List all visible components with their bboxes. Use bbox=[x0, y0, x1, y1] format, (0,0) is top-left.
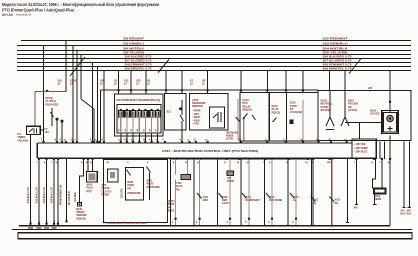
connector square 5 in A503 bbox=[143, 110, 148, 117]
svg-text:X45: X45 bbox=[401, 210, 406, 213]
svg-text:GAUGE: GAUGE bbox=[370, 113, 380, 116]
K01A gray wire bbox=[243, 119, 245, 140]
attached connector box right of unit bbox=[352, 139, 376, 158]
switch symbol S01B bbox=[326, 117, 334, 130]
pin mark top 14 bbox=[132, 141, 134, 143]
svg-text:103 BLK 1.0 P: 103 BLK 1.0 P bbox=[43, 187, 46, 203]
pin mark bottom 5 bbox=[83, 158, 85, 160]
solenoid box 5 outline bbox=[265, 159, 289, 226]
junction nub enclosure 2 bbox=[130, 89, 132, 91]
wire drop 1 bbox=[43, 46, 45, 144]
svg-text:303 GRN/BLU: 303 GRN/BLU bbox=[123, 43, 144, 46]
connector square 6 inner marks bbox=[151, 111, 153, 116]
svg-text:(PQ)C21: (PQ)C21 bbox=[243, 109, 253, 112]
end tick resistor wire bbox=[373, 204, 376, 206]
B030 label bbox=[128, 181, 142, 195]
pin mark bottom 25 bbox=[373, 158, 375, 160]
pin wire square 2 to unit bbox=[126, 133, 128, 143]
pin mark top 19 bbox=[164, 141, 166, 143]
pin mark top 30 bbox=[346, 141, 348, 143]
pin mark bottom 13 bbox=[199, 158, 201, 160]
ground junction dash at 54 bbox=[51, 227, 56, 229]
end tick x404 bbox=[402, 207, 405, 209]
K01A contact pin bbox=[243, 118, 245, 120]
contact arrow box2 bbox=[197, 193, 202, 199]
solenoid box 4 outline bbox=[241, 159, 265, 226]
svg-text:PQ(C2): PQ(C2) bbox=[272, 111, 281, 114]
pin mark top 7 bbox=[93, 141, 95, 143]
switch B071 arrow bbox=[147, 167, 151, 173]
wire drop 7 bbox=[96, 67, 98, 144]
S210 gray wire bbox=[302, 100, 304, 141]
junction nub enclosure 8 bbox=[266, 89, 268, 91]
wire bus line 4 bbox=[17, 54, 411, 56]
svg-text:309 BRN/YEL 0.75: 309 BRN/YEL 0.75 bbox=[323, 68, 353, 71]
box K01A outline bbox=[240, 93, 269, 142]
wire box6 bbox=[295, 159, 297, 225]
svg-text:LEVEL: LEVEL bbox=[226, 138, 234, 141]
pin mark top 24 bbox=[240, 141, 242, 143]
svg-text:W1 RED: W1 RED bbox=[74, 192, 77, 202]
ground pin nub 3 bbox=[45, 223, 47, 225]
svg-text:A503 POWERSHIFT TRANSMISSION (: A503 POWERSHIFT TRANSMISSION (PQ) bbox=[116, 98, 160, 102]
svg-text:S13: S13 bbox=[167, 111, 172, 114]
connector square 2 in A503 bbox=[125, 110, 130, 117]
B021 label bbox=[370, 110, 380, 116]
wire drop 2 bbox=[65, 41, 67, 93]
svg-text:(LTC21): (LTC21) bbox=[348, 109, 357, 112]
wire box1 down bbox=[175, 180, 177, 226]
svg-text:(PQ): (PQ) bbox=[87, 190, 92, 193]
nub x66.5 bbox=[65, 220, 67, 222]
X connector box bbox=[87, 172, 98, 183]
gray wire under square 7 bbox=[157, 117, 159, 133]
svg-text:(PQ/AQ): (PQ/AQ) bbox=[76, 217, 86, 220]
label x404 bbox=[401, 210, 406, 216]
wire bus line 1 bbox=[21, 40, 411, 42]
svg-text:304 WHT/BLK: 304 WHT/BLK bbox=[323, 48, 348, 51]
ground pin nub 4 bbox=[53, 223, 55, 225]
svg-text:307 BLU/RED 0.75: 307 BLU/RED 0.75 bbox=[125, 60, 153, 63]
wire continuation after jog bbox=[93, 109, 95, 143]
solenoid box 1 outline bbox=[171, 159, 195, 226]
switch arrow in S13 bbox=[180, 115, 184, 121]
wire bus line 5 bbox=[17, 58, 411, 60]
wire x313 down bbox=[312, 159, 314, 226]
label X102 bbox=[335, 199, 341, 205]
enclosure left edge bbox=[99, 90, 101, 143]
pin mark top 3 bbox=[61, 141, 63, 143]
solenoid circle bbox=[387, 115, 394, 122]
solenoid sub box3 bbox=[227, 171, 234, 176]
pin wire square 3 to unit bbox=[132, 133, 134, 143]
wire drop 11 bbox=[145, 71, 147, 95]
svg-text:309 BRN/YEL 0.75: 309 BRN/YEL 0.75 bbox=[125, 68, 153, 71]
svg-text:• JD# 500RU: • JD# 500RU bbox=[354, 147, 368, 150]
pin mark top 23 bbox=[207, 141, 209, 143]
wire drop 13 bbox=[181, 71, 183, 94]
svg-text:X40: X40 bbox=[354, 207, 359, 210]
K01A label bbox=[243, 99, 253, 112]
K013 contact bbox=[273, 118, 277, 123]
fuse F5 label bbox=[45, 128, 50, 134]
box A502 outline bbox=[189, 94, 228, 131]
box A503 outline bbox=[115, 94, 163, 136]
junction nub enclosure 4 bbox=[165, 89, 167, 91]
connector label X5B bbox=[100, 80, 105, 86]
svg-text:305 YEL/GRN: 305 YEL/GRN bbox=[123, 52, 144, 55]
wire bus line 2 bbox=[17, 45, 411, 47]
svg-text:Модели после 34.02/34.07, 1996: Модели после 34.02/34.07, 1996 г. - Мног… bbox=[2, 1, 159, 7]
wire down left 2 bbox=[46, 159, 48, 226]
wire x380 stub bbox=[379, 142, 381, 160]
svg-text:302 RED/WHT: 302 RED/WHT bbox=[323, 38, 349, 41]
connector label X13 bbox=[136, 80, 141, 86]
junction nub enclosure 7 bbox=[240, 89, 242, 91]
solenoid box pin 5 bbox=[271, 218, 273, 220]
resistor label bbox=[375, 196, 382, 201]
svg-text:• JD# 500L: • JD# 500L bbox=[354, 143, 367, 146]
svg-text:SPEC: SPEC bbox=[168, 210, 175, 213]
svg-text:ENGAGED: ENGAGED bbox=[46, 103, 59, 106]
gray wire under square 6 bbox=[151, 117, 153, 133]
resistor box bbox=[374, 189, 386, 194]
pin mark top 29 bbox=[330, 141, 332, 143]
pin mark top 18 bbox=[157, 141, 159, 143]
wire stub x52 bbox=[51, 108, 53, 126]
connector square 3 inner marks bbox=[132, 111, 134, 116]
svg-text:PQ: PQ bbox=[313, 202, 317, 205]
ground bus bar bbox=[18, 233, 412, 239]
contact arrow box6 bbox=[290, 193, 295, 199]
pin mark bottom 12 bbox=[187, 158, 189, 160]
label MPT bbox=[168, 200, 175, 213]
box A502 title bbox=[192, 98, 206, 108]
svg-text:305 YEL/GRN: 305 YEL/GRN bbox=[323, 52, 348, 55]
svg-text:306 BLK/ORG 0.75: 306 BLK/ORG 0.75 bbox=[125, 56, 153, 59]
gray wire under square 2 bbox=[126, 117, 128, 133]
pin mark bottom 19 bbox=[288, 158, 290, 160]
solenoid box pin 2 bbox=[199, 218, 201, 220]
pin mark bottom 21 bbox=[312, 158, 314, 160]
wire x390 down to bus bbox=[389, 136, 391, 226]
solenoid box 3 outline bbox=[218, 159, 242, 226]
pedal switch label bbox=[102, 184, 112, 197]
label Y001 bbox=[203, 196, 209, 202]
svg-text:PQ: PQ bbox=[176, 188, 180, 191]
svg-text:PUMP: PUMP bbox=[227, 180, 234, 183]
wire maroon horizontal bbox=[35, 91, 66, 93]
K01A contact bbox=[244, 114, 248, 119]
connector label X5 bbox=[114, 80, 118, 86]
label X101 bbox=[313, 199, 319, 205]
pin wire square 4 to unit bbox=[138, 133, 140, 143]
label x409 bbox=[407, 210, 412, 216]
pin mark top 11 bbox=[103, 141, 105, 143]
pin mark bottom 20 bbox=[307, 158, 309, 160]
switch symbol S010 bbox=[341, 117, 349, 126]
note text clutch engaged bbox=[46, 97, 59, 106]
box pressure group outline bbox=[104, 160, 168, 223]
wire drop 3 bbox=[72, 46, 74, 144]
solenoid box B021 bbox=[383, 113, 397, 133]
pin mark top 1 bbox=[42, 141, 44, 143]
speed sensor inner mark bbox=[79, 203, 81, 205]
ground pin nub 2 bbox=[38, 223, 40, 225]
pin mark top 17 bbox=[151, 141, 153, 143]
label V08 bbox=[227, 177, 234, 183]
svg-text:LTC21(N2): LTC21(N2) bbox=[290, 111, 302, 114]
pin mark bottom 2 bbox=[45, 158, 47, 160]
relay K3 contacts bbox=[29, 129, 37, 134]
pin mark top 25 bbox=[266, 141, 268, 143]
connector label X10 bbox=[58, 80, 63, 86]
ground junction dash at 30.5 bbox=[28, 227, 33, 229]
pin wire square 6 to unit bbox=[151, 133, 153, 143]
terminal square x62 bbox=[61, 120, 64, 123]
svg-text:BLK: BLK bbox=[407, 214, 412, 216]
svg-text:101 BLK 1.0 P: 101 BLK 1.0 P bbox=[27, 187, 30, 203]
contact arrow box3 bbox=[219, 193, 224, 199]
B071 label bbox=[147, 179, 161, 188]
svg-text:104 BLK 1.0 P: 104 BLK 1.0 P bbox=[51, 187, 54, 203]
svg-text:PRESSURE: PRESSURE bbox=[147, 186, 161, 189]
connector square 3 in A503 bbox=[131, 110, 136, 117]
wire x404 down bbox=[403, 142, 405, 208]
pin mark top 21 bbox=[188, 141, 190, 143]
pin mark bottom 16 bbox=[248, 158, 250, 160]
pin mark top 20 bbox=[181, 141, 183, 143]
relay box inside A502 bbox=[210, 107, 225, 128]
pin mark bottom 23 bbox=[331, 158, 333, 160]
solenoid box pin 1 bbox=[174, 218, 176, 220]
junction nub enclosure 9 bbox=[285, 89, 287, 91]
pin mark top 12 bbox=[120, 141, 122, 143]
label Y300 bbox=[176, 182, 183, 191]
pin wire square 5 to unit bbox=[144, 133, 146, 143]
svg-text:X46: X46 bbox=[407, 210, 412, 213]
pin mark bottom 18 bbox=[271, 158, 273, 160]
wire x375 with jog bbox=[373, 159, 376, 189]
box A503 inner outline bbox=[117, 105, 161, 133]
svg-text:NC 219 BLK: NC 219 BLK bbox=[68, 191, 71, 205]
pin mark top 2 bbox=[56, 141, 58, 143]
K013 label bbox=[272, 105, 281, 114]
pin mark top 28 bbox=[318, 141, 320, 143]
connector square 5 top nub bbox=[144, 109, 146, 111]
wire to X connector 1 bbox=[87, 159, 89, 172]
connector arrow x313 bbox=[311, 197, 316, 202]
junction nub enclosure 6 bbox=[207, 89, 209, 91]
connector square 7 inner marks bbox=[157, 111, 159, 116]
svg-text:10A: 10A bbox=[45, 131, 50, 134]
solenoid hatch bbox=[388, 126, 393, 131]
connector label X8 bbox=[202, 80, 206, 86]
end tick x356 bbox=[355, 204, 358, 206]
switch group drop wire bbox=[359, 123, 361, 139]
wire drop 15 bbox=[240, 71, 242, 93]
box S13 outline bbox=[165, 94, 187, 131]
wire to X connector 2 bbox=[92, 159, 94, 172]
wire in S13 bbox=[181, 100, 183, 115]
pin mark top 4 bbox=[65, 141, 67, 143]
switch group bottom wire bbox=[345, 122, 382, 124]
svg-text:SENSOR: SENSOR bbox=[192, 105, 203, 108]
wire x384 stub bbox=[384, 142, 386, 160]
solenoid outer box B021 bbox=[382, 111, 399, 134]
ground junction dash at 46.5 bbox=[44, 227, 49, 229]
wire bus line 3 bbox=[17, 50, 411, 52]
pin mark bottom 9 bbox=[129, 158, 131, 160]
junction nub enclosure 3 bbox=[145, 89, 147, 91]
wire down left 1 bbox=[38, 159, 40, 226]
svg-text:218 ORG: 218 ORG bbox=[122, 188, 124, 198]
wire bus line 7 bbox=[17, 66, 411, 68]
pin mark bottom 27 bbox=[389, 158, 391, 160]
ground pin nub 1 bbox=[29, 223, 31, 225]
pin mark bottom 1 bbox=[38, 158, 40, 160]
solenoid circle center dot bbox=[389, 118, 391, 120]
box K013 outline bbox=[269, 93, 286, 142]
wire drop 8 bbox=[103, 71, 105, 144]
svg-text:4WD: 4WD bbox=[203, 199, 209, 202]
wire box4 bbox=[248, 159, 250, 225]
pin mark top 27 bbox=[302, 141, 304, 143]
ground rail lower line bbox=[12, 228, 412, 230]
pin mark bottom 8 bbox=[108, 158, 110, 160]
connector square 1 in A503 bbox=[119, 110, 124, 117]
svg-text:PR: PR bbox=[128, 187, 132, 190]
speed sensor label bbox=[76, 208, 86, 221]
control unit A511 left edge bbox=[36, 143, 38, 158]
wire resistor down bbox=[374, 194, 376, 205]
speed sensor box bbox=[77, 202, 81, 206]
wire drop 12 bbox=[165, 71, 167, 94]
pin mark bottom 10 bbox=[149, 158, 151, 160]
nub on wire 390 bbox=[389, 101, 391, 103]
wire drop 21 bbox=[389, 71, 391, 113]
B071 wire bbox=[149, 173, 151, 201]
svg-text:302 RED/WHT: 302 RED/WHT bbox=[123, 38, 145, 41]
pin mark top 5 bbox=[72, 141, 74, 143]
wire drop 20 bbox=[344, 71, 346, 91]
bundle slash far left bbox=[70, 57, 85, 76]
connector label X10A bbox=[70, 80, 76, 86]
wire into switch S01B bbox=[329, 91, 331, 118]
gray wire box3 bbox=[229, 159, 231, 171]
wire relay bottom down bbox=[30, 134, 32, 225]
contact arrow box4 bbox=[242, 193, 247, 199]
pedal switch inner bbox=[110, 172, 115, 178]
svg-text:307 BLU/RED 0.75: 307 BLU/RED 0.75 bbox=[323, 60, 353, 63]
relay K3 box bbox=[27, 126, 41, 134]
connector square 2 inner marks bbox=[126, 111, 128, 116]
pin mark top 8 bbox=[91, 141, 93, 143]
end tick x347 bbox=[346, 222, 349, 224]
connector square 6 top nub bbox=[151, 109, 153, 111]
pin mark bottom 24 bbox=[355, 158, 357, 160]
connector label X9 bbox=[147, 80, 151, 86]
svg-text:A511 - MULTIFUNCTION CONTROL U: A511 - MULTIFUNCTION CONTROL UNIT (PTO S… bbox=[162, 149, 258, 153]
wire bus line 8 bbox=[17, 70, 411, 72]
wire x356 down bbox=[356, 159, 358, 205]
wire maroon x332 down bbox=[331, 159, 333, 226]
pin mark top 9 bbox=[96, 141, 98, 143]
wire drop 14 bbox=[207, 71, 209, 94]
svg-text:BLK: BLK bbox=[401, 214, 406, 216]
wire x347 down bbox=[347, 159, 349, 223]
pin mark bottom 14 bbox=[226, 158, 228, 160]
pin mark bottom 3 bbox=[53, 158, 55, 160]
svg-text:306 BLK/ORG 0.75: 306 BLK/ORG 0.75 bbox=[323, 56, 353, 59]
label Y003 bbox=[269, 196, 283, 202]
X connector fill bbox=[88, 173, 95, 180]
B030 switch arrow bbox=[127, 170, 131, 176]
wire jog diagonal bbox=[81, 99, 94, 109]
terminal square x57 bbox=[56, 118, 59, 121]
wire relay to bar stub bbox=[40, 129, 44, 131]
solenoid box pin 4 bbox=[248, 218, 250, 220]
box S210 outline bbox=[286, 93, 318, 142]
pin mark top 13 bbox=[126, 141, 128, 143]
bundle slash left bbox=[158, 60, 169, 73]
svg-text:308 GRN/WHT 0.75: 308 GRN/WHT 0.75 bbox=[125, 64, 153, 67]
connector square 3 top nub bbox=[132, 109, 134, 111]
pin wire square 1 to unit bbox=[120, 133, 122, 143]
solenoid box 6 outline bbox=[288, 159, 312, 226]
wire x58 down bbox=[57, 159, 59, 226]
wire drop 17 bbox=[285, 71, 287, 93]
gray wire box2 bbox=[199, 159, 201, 225]
pin mark bottom 11 bbox=[174, 158, 176, 160]
svg-text:UNLASH: UNLASH bbox=[18, 139, 29, 142]
end tick x409 bbox=[408, 207, 411, 209]
gray wire under square 4 bbox=[138, 117, 140, 133]
wire drop 5 bbox=[80, 55, 82, 100]
svg-text:— TRANSMISSION OIL PRESSURE SW: — TRANSMISSION OIL PRESSURE SWITCHES — bbox=[105, 222, 149, 225]
svg-text:• PTO: • PTO bbox=[193, 123, 200, 126]
wire down left 3 bbox=[53, 159, 55, 226]
connector square 1 top nub bbox=[120, 109, 122, 111]
wire drop 6 bbox=[91, 63, 93, 144]
pin mark top 15 bbox=[138, 141, 140, 143]
pin mark top 26 bbox=[285, 141, 287, 143]
bundle slash right bbox=[349, 59, 361, 74]
solenoid box pin 3 bbox=[229, 218, 231, 220]
gray wire under square 5 bbox=[144, 117, 146, 133]
wire to speed sensor L bbox=[80, 159, 84, 202]
svg-text:TERM: TERM bbox=[375, 199, 382, 201]
pin mark top 22 bbox=[195, 141, 197, 143]
enclosure top line bbox=[100, 89, 318, 91]
connector label X7 bbox=[190, 80, 194, 86]
svg-text:303 GRN/BLU: 303 GRN/BLU bbox=[323, 43, 348, 46]
pin mark bottom 7 bbox=[92, 158, 94, 160]
svg-text:102 BLK 1.0 P: 102 BLK 1.0 P bbox=[36, 187, 39, 203]
solenoid box pin 6 bbox=[295, 218, 297, 220]
ground rail upper line bbox=[19, 225, 390, 227]
connector label X12 bbox=[124, 80, 129, 86]
pin mark bottom 4 bbox=[57, 158, 59, 160]
wire x62 down bbox=[61, 122, 63, 143]
contact arrow x238 bbox=[236, 117, 240, 122]
gray wire box1 b bbox=[187, 159, 189, 175]
junction nub enclosure 10 bbox=[302, 89, 304, 91]
wire into switch S010 bbox=[344, 91, 346, 118]
terminal square in S13 bbox=[179, 108, 182, 111]
sub box pedal switch bbox=[108, 169, 119, 182]
ground junction dash at 39 bbox=[36, 227, 41, 229]
